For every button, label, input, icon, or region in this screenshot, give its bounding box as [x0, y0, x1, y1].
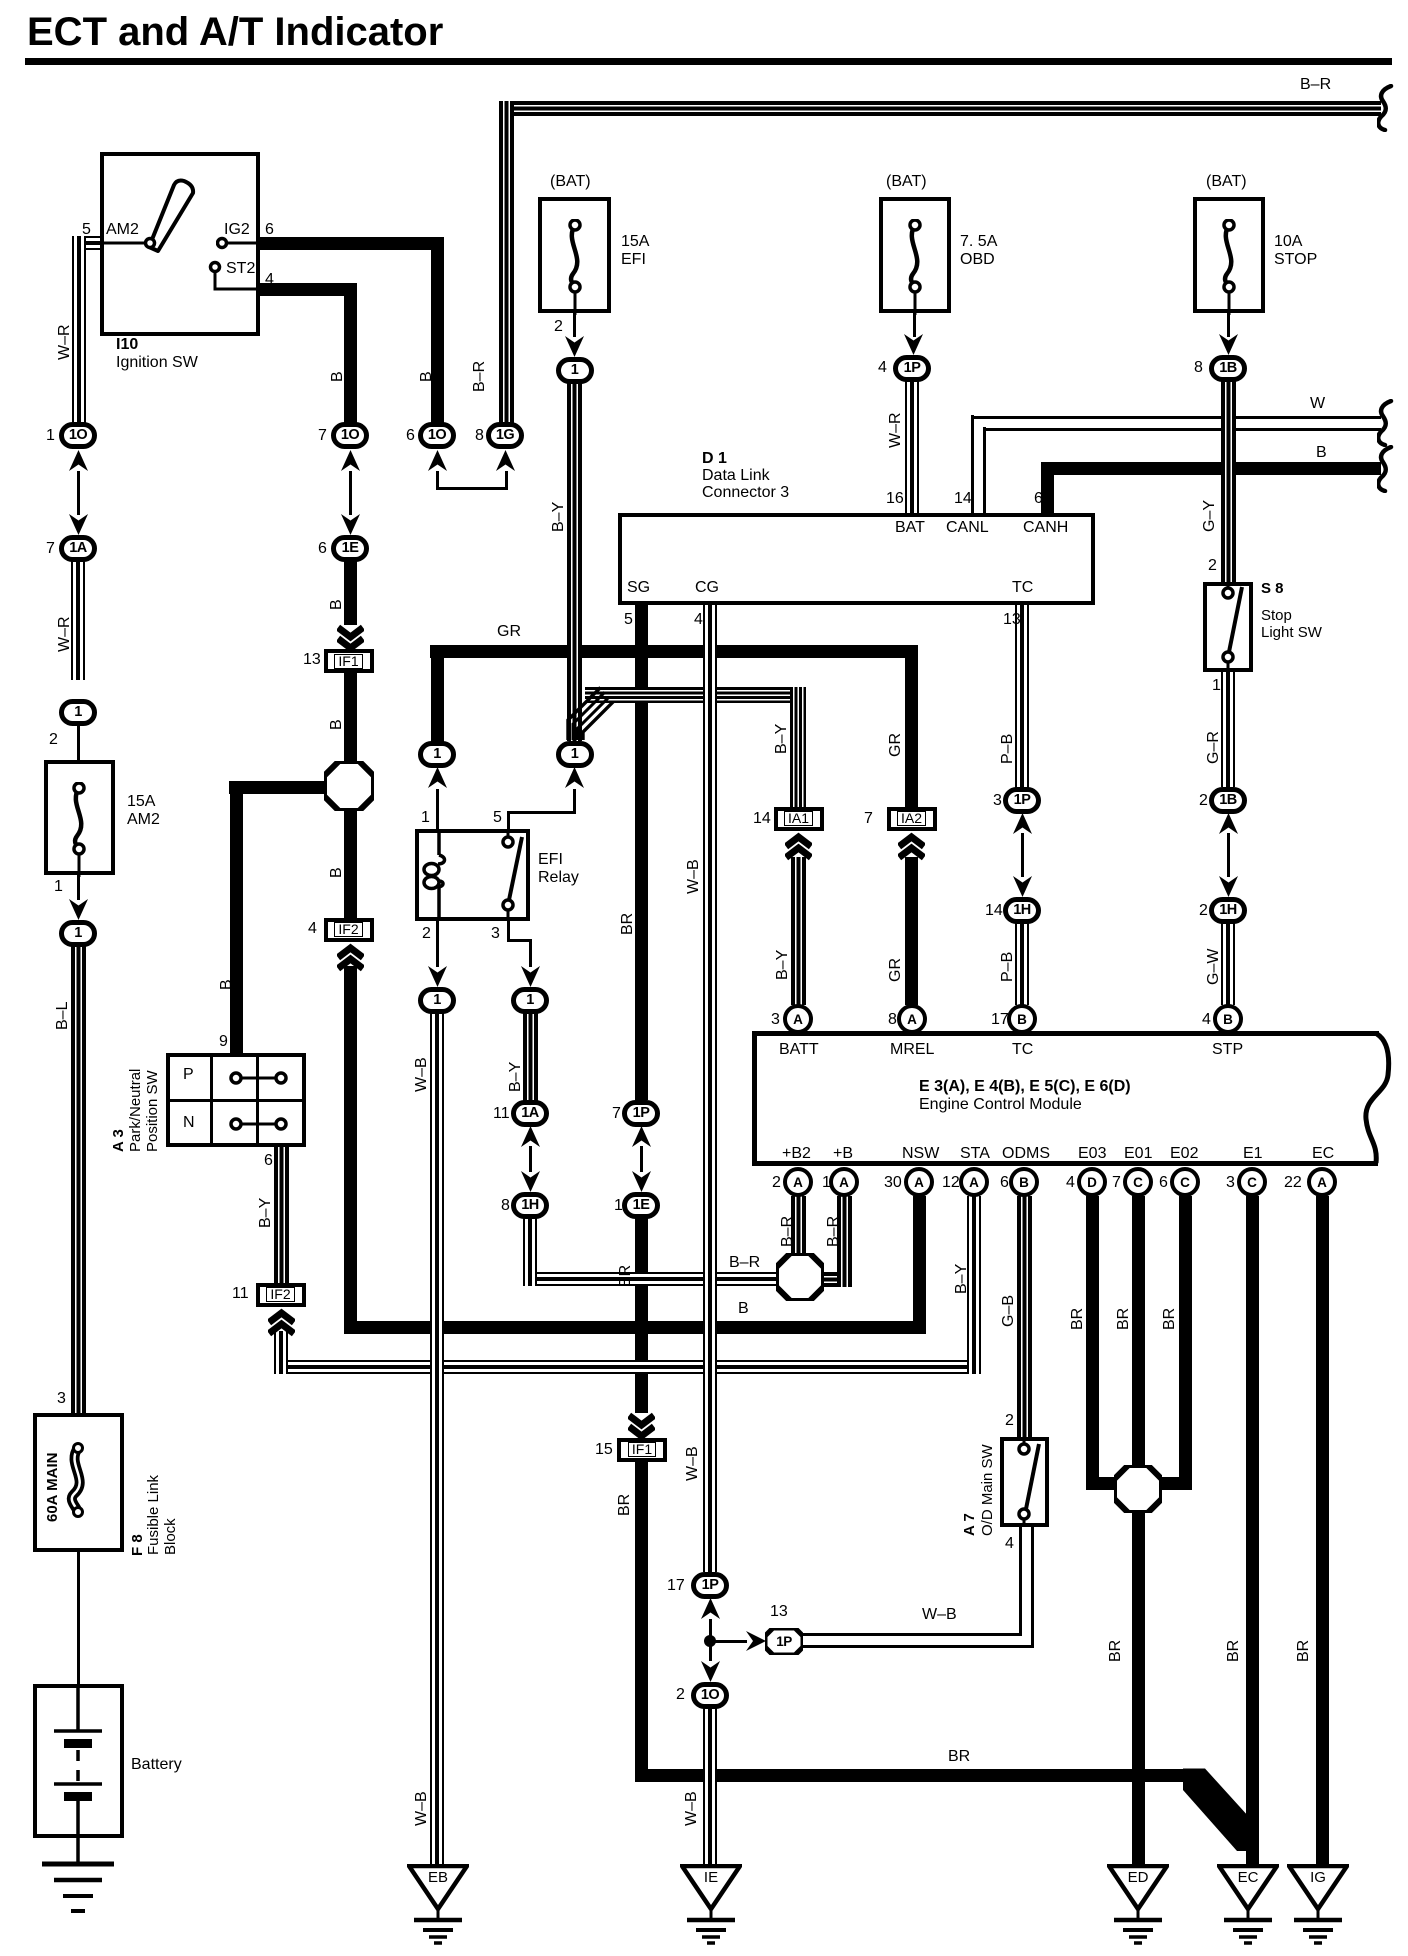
- label E1: [1243, 1145, 1263, 1163]
- designator A 7: [962, 1513, 977, 1536]
- wire G-Y to stop light switch: [1221, 381, 1236, 582]
- label E03: [1078, 1145, 1106, 1163]
- wire GR IA2 to ECM: [905, 857, 918, 1005]
- wire G-W 1H to ECM: [1221, 923, 1235, 1005]
- arrow into oval 1 below fuse: [69, 899, 88, 920]
- arrow into 1P obd: [904, 334, 923, 355]
- connector 1P pin7 (SG chain): [622, 1100, 660, 1127]
- name Ignition SW: [116, 354, 198, 372]
- ecm pin A BATT: [783, 1004, 813, 1034]
- wire between 1P and 1E (SG chain): [640, 1146, 643, 1172]
- arrow into 1P pin13: [746, 1631, 766, 1651]
- pin 9 label: [219, 1033, 228, 1051]
- pin 4 label IF2: [308, 920, 317, 938]
- label B to park neutral: [219, 979, 235, 990]
- label GR above IA2: [888, 733, 904, 757]
- wire B-R +B2 to octagon: [791, 1196, 806, 1255]
- label W-R: [57, 324, 73, 360]
- name EFI Relay: [538, 851, 579, 887]
- connector 1H pin14 (TC chain): [1003, 897, 1041, 924]
- wire BR 1E to IF1b: [635, 1218, 648, 1413]
- wire between 1O7 and 1E: [349, 471, 352, 515]
- terminal label ST2: [226, 260, 255, 278]
- pin 11 label IF2b: [232, 1285, 249, 1303]
- ground ED: [1107, 1864, 1169, 1949]
- name Position SW: [145, 1070, 160, 1152]
- wire B NSW down: [913, 1196, 926, 1334]
- wire B CANH vertical: [1041, 462, 1054, 514]
- label MREL: [890, 1041, 934, 1059]
- pin 2 label (stop chain): [1199, 902, 1208, 920]
- wire W-R AM2 down to 1O: [72, 236, 86, 424]
- arrow into 1O pin1: [69, 450, 88, 471]
- wire B-Y bundle horizontal: [585, 687, 806, 703]
- ecm pin A NSW: [904, 1167, 934, 1197]
- pin 4 label: [265, 271, 274, 289]
- fusible link symbol: [64, 1442, 92, 1518]
- A3 P contacts: [226, 1068, 292, 1088]
- wire B horizontal to NSW: [344, 1321, 927, 1334]
- ecm pin A +B2: [783, 1167, 813, 1197]
- name Stop Light SW: [1261, 607, 1322, 641]
- pin 6 label: [265, 221, 274, 239]
- ground EB: [407, 1864, 469, 1949]
- continuation curl W: [1377, 399, 1395, 447]
- arrow below 1A (relay out): [521, 1126, 540, 1147]
- fusible link 60A MAIN box: [33, 1413, 124, 1552]
- wire B-Y A3 to IF2b: [274, 1147, 289, 1284]
- label G-R: [1206, 731, 1222, 764]
- label CANH: [1023, 519, 1068, 537]
- wire between 1P and 1H (TC chain): [1021, 833, 1024, 877]
- connector 1E: [331, 535, 369, 562]
- pin 2 label: [49, 731, 58, 749]
- A3 N contacts: [226, 1114, 292, 1134]
- pin 14 label IA1: [753, 810, 771, 828]
- battery box: [33, 1684, 124, 1838]
- connector 1 below relay pin2: [418, 987, 456, 1014]
- label STP: [1212, 1041, 1243, 1059]
- designator D 1: [702, 450, 727, 468]
- label BAT stop: [1206, 173, 1247, 191]
- connector 1 below EFI fuse: [556, 357, 594, 384]
- A3 internal grid: [210, 1055, 213, 1145]
- pin 2 label +B2: [772, 1174, 781, 1192]
- label B above IF2: [329, 867, 345, 878]
- wire W-B relay to EB ground: [430, 1013, 444, 1864]
- pin 4 label obd: [878, 359, 887, 377]
- label B-Y A3: [258, 1198, 274, 1228]
- arrow into 1H (stop chain): [1219, 876, 1238, 897]
- label CG: [695, 579, 719, 597]
- connector 1P pin4: [893, 355, 931, 382]
- label B at x437: [419, 371, 435, 382]
- ecm pin B ODMS: [1009, 1167, 1039, 1197]
- pin 13 label TC: [1003, 611, 1021, 629]
- pin 1 label S8: [1212, 677, 1221, 695]
- wire B-R vertical to 1G: [499, 101, 514, 424]
- chevrons into IF1: [337, 624, 364, 655]
- wire between 1B and 1H (stop chain): [1227, 833, 1230, 877]
- label W-B to IE: [684, 1791, 700, 1826]
- label 60A MAIN: [45, 1453, 60, 1522]
- pin 1 label: [46, 427, 55, 445]
- name Fusible Link: [146, 1475, 161, 1555]
- pin 14 label: [954, 490, 972, 508]
- label BR EC: [1296, 1640, 1312, 1662]
- connector 1B pin2 (stop chain): [1209, 787, 1247, 814]
- ecm pin A MREL: [897, 1004, 927, 1034]
- pin 8 label stop: [1194, 359, 1203, 377]
- label B-Y below IA1: [775, 950, 791, 980]
- label BAT efi: [550, 173, 591, 191]
- connector 1E pin1 (SG chain): [622, 1192, 660, 1219]
- label B at x350: [330, 371, 346, 382]
- wire B-R top horizontal: [499, 101, 1381, 116]
- pin 14 label (TC chain): [985, 902, 1003, 920]
- label ODMS: [1002, 1145, 1050, 1163]
- label BR E02: [1162, 1308, 1178, 1330]
- label B below IF1: [329, 719, 345, 730]
- S8 switch contact: [1208, 582, 1253, 672]
- wire B from ST2: [258, 283, 357, 296]
- label B-L: [55, 1002, 71, 1030]
- junction block IA2: [887, 807, 937, 831]
- title text: [27, 10, 443, 55]
- wire obd fuse down: [913, 313, 916, 337]
- pin 4 label STP: [1202, 1011, 1211, 1029]
- pin 3 label: [57, 1390, 66, 1408]
- connector 1P pin17: [691, 1572, 729, 1599]
- ecm pin D E03: [1077, 1167, 1107, 1197]
- wire W-R to D1 BAT: [905, 381, 919, 513]
- wire BR E02 turn: [1156, 1477, 1192, 1490]
- wire G-R S8 down: [1221, 672, 1235, 787]
- connector 1 below relay pin3: [511, 987, 549, 1014]
- junction octagon J1: [324, 761, 374, 811]
- pin 3 label relay: [491, 925, 500, 943]
- arrow into junction oval 1: [69, 700, 88, 721]
- fuse 10A STOP symbol: [1215, 219, 1243, 315]
- pin 8 label: [475, 427, 484, 445]
- ground EC: [1217, 1864, 1279, 1949]
- wire relay pin3 down: [507, 921, 510, 942]
- label BR to ED: [1108, 1640, 1124, 1662]
- ignition switch I10 box: [100, 152, 260, 336]
- arrow into 1O pin6: [428, 450, 447, 471]
- wire W-B to IE ground: [703, 1708, 717, 1864]
- arrow below oval1 left: [428, 767, 447, 788]
- wire B CANH horizontal: [1041, 462, 1381, 475]
- EFI relay box: [415, 829, 530, 921]
- pin 8 label (relay out): [501, 1197, 510, 1215]
- arrow below oval1 right: [565, 767, 584, 788]
- connector 1O pin1: [59, 422, 97, 449]
- ecm pin A STA: [959, 1167, 989, 1197]
- pin 2 label 1O: [676, 1686, 685, 1704]
- label E02: [1170, 1145, 1198, 1163]
- label B horizontal: [738, 1300, 749, 1318]
- pin 7 label (SG chain): [612, 1105, 621, 1123]
- wire BR SG from D1: [635, 605, 648, 1100]
- designator I10: [116, 336, 138, 354]
- name O/D Main SW: [980, 1444, 995, 1536]
- pin 2 label OD: [1005, 1412, 1014, 1430]
- pin 5 label: [82, 221, 91, 239]
- wire to AM2 fuse: [77, 725, 80, 760]
- wire between 1O and 1A: [77, 471, 80, 515]
- label E01: [1124, 1145, 1152, 1163]
- pin 3 label (TC chain): [993, 792, 1002, 810]
- label P-B upper: [1000, 734, 1016, 764]
- label +B2: [782, 1145, 811, 1163]
- pin 3 label BATT: [771, 1011, 780, 1029]
- terminal label IG2: [224, 221, 250, 239]
- arrow below 1P pin17: [701, 1598, 720, 1619]
- wire between 1A and 1H (relay out): [529, 1146, 532, 1172]
- junction octagon J2: [776, 1253, 824, 1301]
- O/D main switch A7 box: [1000, 1437, 1049, 1527]
- fuse 15A EFI symbol: [561, 219, 589, 315]
- pin 1 label below fuse: [54, 878, 63, 896]
- designator F 8: [130, 1534, 145, 1556]
- junction block IA1: [774, 807, 824, 831]
- junction block IF2: [324, 918, 374, 942]
- pin 4 label E03: [1066, 1174, 1075, 1192]
- connector 1B pin8: [1209, 355, 1247, 382]
- pin 4 label CG: [694, 611, 703, 629]
- ecm pin B STP: [1213, 1004, 1243, 1034]
- pin 2 label relay: [422, 925, 431, 943]
- connector 1A pin11 (relay out): [511, 1100, 549, 1127]
- label W-B CG: [686, 859, 702, 894]
- arrow into 1G pin8: [496, 450, 515, 471]
- arrow into 1O pin7: [341, 450, 360, 471]
- pin 13 label: [770, 1603, 788, 1621]
- label GR: [497, 623, 521, 641]
- connector 1P pin3 (TC chain): [1003, 787, 1041, 814]
- wire branch to 13 1P: [712, 1640, 747, 1643]
- pin 11 label (relay out): [493, 1105, 510, 1123]
- wire B-Y efi fuse down: [567, 383, 582, 741]
- wire efi fuse to arrow: [573, 313, 576, 337]
- pin 5 label SG: [624, 611, 633, 629]
- label B canh: [1316, 444, 1327, 462]
- wire B 1E to IF1: [344, 561, 357, 625]
- pin 7 label IA2: [864, 810, 873, 828]
- wire BR EC down: [1316, 1196, 1329, 1864]
- wire oval1 to relay pin1: [436, 789, 439, 829]
- name Block: [163, 1518, 178, 1555]
- wire W-B to OD switch horizontal: [801, 1633, 1022, 1636]
- wire BR 1H down to turn: [523, 1218, 537, 1286]
- fuse 7.5A OBD box: [879, 197, 951, 313]
- label B-R octagon left: [729, 1254, 760, 1272]
- pin 12 label STA: [942, 1174, 960, 1192]
- label STA: [960, 1145, 990, 1163]
- fuse 10A STOP box: [1193, 197, 1265, 313]
- label B-Y efi: [551, 502, 567, 532]
- label BAT obd: [886, 173, 927, 191]
- terminal IG2 contact: [216, 236, 260, 250]
- arrow into 1A: [69, 514, 88, 535]
- ecm pin C E01: [1123, 1167, 1153, 1197]
- junction block IF1 second: [617, 1438, 667, 1462]
- ecm connector ids: [919, 1078, 1131, 1096]
- junction dot: [703, 1634, 717, 1648]
- junction block IF1: [324, 649, 374, 673]
- wire B-R horizontal to octagon: [523, 1272, 778, 1286]
- wire P-B 1H to ECM: [1015, 923, 1029, 1005]
- pin 7 label: [318, 427, 327, 445]
- wire B-R +B turn: [820, 1272, 852, 1287]
- connector 1P pin13: [765, 1628, 803, 1655]
- terminal ST2 contact: [208, 260, 260, 296]
- label NSW: [902, 1145, 939, 1163]
- arrow into oval1 pin2: [428, 966, 447, 987]
- arrow into 1H (TC chain): [1013, 876, 1032, 897]
- name Connector 3: [702, 484, 789, 502]
- fuse label 15A AM2: [127, 793, 160, 829]
- chevrons into IA1: [785, 830, 812, 861]
- chevrons into IF2: [337, 941, 364, 972]
- label BR E01: [1116, 1308, 1132, 1330]
- ecm pin C E02: [1170, 1167, 1200, 1197]
- chevrons into IF1 second: [628, 1412, 655, 1443]
- label Battery: [131, 1756, 182, 1774]
- wire B-Y horizontal to STA: [274, 1360, 981, 1374]
- connector 1H pin2 (stop chain): [1209, 897, 1247, 924]
- wire B from IG2: [258, 237, 444, 250]
- name Data Link: [702, 467, 770, 485]
- wire BR diagonal to EC: [1183, 1762, 1263, 1857]
- pin 6 label A3: [264, 1152, 273, 1170]
- wire GR horizontal: [430, 645, 918, 658]
- wire BR E03 turn: [1086, 1477, 1121, 1490]
- wire relay pin2 down: [436, 921, 439, 967]
- pin 2 label S8: [1208, 557, 1217, 575]
- arrow below 1P (SG chain): [632, 1126, 651, 1147]
- connector 1A: [59, 535, 97, 562]
- wire B down to A3 pin 9: [230, 781, 243, 1054]
- label CANL: [946, 519, 989, 537]
- label G-B: [1001, 1295, 1017, 1327]
- pin 6 label 1E: [318, 540, 327, 558]
- pin 6 label canh: [1034, 490, 1043, 508]
- wire W double line: [971, 416, 1381, 419]
- fuse label 10A STOP: [1274, 233, 1317, 269]
- title underline: [25, 58, 1392, 65]
- wire BR E02 down: [1179, 1196, 1192, 1490]
- label B-Y STA: [954, 1264, 970, 1294]
- label +B: [833, 1145, 853, 1163]
- label P-B lower: [1000, 952, 1016, 982]
- park/neutral position switch A3 box: [166, 1053, 306, 1147]
- chevrons into IA2: [898, 830, 925, 861]
- battery ground symbol: [38, 1838, 118, 1922]
- label BR horizontal: [948, 1748, 970, 1766]
- label BAT: [895, 519, 925, 537]
- wire W-R 1A to junction connector: [71, 561, 85, 680]
- wire P-B TC from D1: [1015, 605, 1029, 788]
- pin 7 label E01: [1112, 1174, 1121, 1192]
- ecm pin C E1: [1237, 1167, 1267, 1197]
- fuse 15A EFI box: [538, 197, 611, 313]
- wire B IF2 down: [344, 966, 357, 1334]
- fuse 15A AM2 symbol: [65, 782, 93, 877]
- terminal AM2 contact: [102, 236, 158, 250]
- pin 5 label relay: [493, 809, 502, 827]
- connector 1 above EFI relay left: [418, 741, 456, 768]
- label G-Y: [1202, 500, 1218, 532]
- pin 1 label (SG chain): [614, 1197, 623, 1215]
- label B-R +B2: [780, 1216, 796, 1247]
- label P: [183, 1066, 194, 1084]
- connector 1O pin7: [331, 422, 369, 449]
- label TC ecm: [1012, 1041, 1033, 1059]
- ignition key symbol: [140, 178, 206, 254]
- connector 1G pin8: [486, 422, 524, 449]
- pin 4 label OD: [1005, 1535, 1014, 1553]
- fuse label 7.5A OBD: [960, 233, 997, 269]
- arrow into 1O pin2: [701, 1661, 720, 1682]
- wire BR IF1b down: [635, 1461, 648, 1782]
- label W-B upper: [414, 1057, 430, 1092]
- junction connector 1 below AM2 fuse: [59, 920, 97, 947]
- wire BR octagon to ED: [1132, 1512, 1145, 1864]
- label BATT: [779, 1041, 819, 1059]
- connector 1O pin6: [418, 422, 456, 449]
- wire BR E01 down: [1132, 1196, 1145, 1470]
- wire BR E03 down: [1086, 1196, 1099, 1490]
- terminal label AM2: [106, 221, 139, 239]
- wire stop fuse down: [1227, 313, 1230, 337]
- stop light switch S8 box: [1203, 582, 1253, 672]
- label B-R: [1300, 76, 1331, 94]
- arrow into 1H (relay out): [521, 1171, 540, 1192]
- label G-W: [1206, 949, 1222, 985]
- wire GR down to IA2: [905, 658, 918, 808]
- continuation curl B-R: [1377, 84, 1395, 132]
- label B-Y pin3: [508, 1062, 524, 1092]
- continuation curl B: [1377, 445, 1395, 493]
- pin 6 label E02: [1159, 1174, 1168, 1192]
- battery plates symbol: [40, 1688, 116, 1834]
- pin 17 label: [667, 1577, 685, 1595]
- connector 1O pin2: [691, 1682, 729, 1709]
- EFI relay coil: [418, 829, 462, 921]
- junction octagon J3: [1114, 1465, 1162, 1513]
- pin 13 label IF1: [303, 651, 321, 669]
- arrow into 1E: [341, 514, 360, 535]
- label W-B beside IF1b: [685, 1446, 701, 1481]
- label BR upper: [620, 913, 636, 935]
- wire B-R +B down: [837, 1196, 852, 1287]
- wire G-B ODMS down: [1017, 1196, 1032, 1437]
- wire BR E1 down: [1246, 1196, 1259, 1864]
- pin 30 label NSW: [884, 1174, 902, 1192]
- label SG: [627, 579, 650, 597]
- label B above IF1: [329, 599, 345, 610]
- wire B-Y IA1 to ECM: [791, 857, 806, 1005]
- name Engine Control Module: [919, 1096, 1082, 1114]
- label B-R at x505: [472, 361, 488, 392]
- label BR E1: [1226, 1640, 1242, 1662]
- wire W-R stub from AM2: [72, 236, 103, 250]
- label B-Y above IA1: [774, 724, 790, 754]
- wire fusible link to battery: [77, 1552, 80, 1684]
- pin 1 label relay: [421, 809, 430, 827]
